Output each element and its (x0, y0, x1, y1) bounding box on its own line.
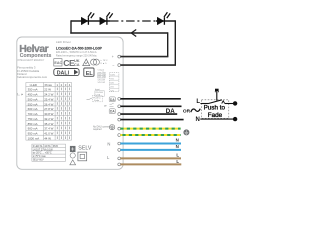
svg-text:t₀ 75°C: t₀ 75°C (101, 59, 108, 62)
switch neutral wire (120, 119, 183, 121)
svg-text:SELV: SELV (78, 146, 92, 152)
svg-text:600 mA: 600 mA (28, 107, 38, 111)
driver U1 outline (17, 37, 123, 169)
mini push-to-fade pictogram (87, 98, 93, 99)
svg-text:37.4 W: 37.4 W (44, 127, 53, 131)
connection dot bottom (233, 117, 237, 121)
svg-text:10%: 10% (110, 90, 114, 92)
svg-text:EAC: EAC (54, 61, 62, 65)
LED D3 (157, 12, 170, 24)
svg-text:32.2 W: 32.2 W (44, 117, 53, 121)
svg-text:or: or (104, 104, 107, 108)
DA short wire (120, 113, 177, 115)
dashed settings block (109, 73, 119, 92)
svg-text:54V 44W: 54V 44W (98, 77, 106, 79)
svg-text:DA: DA (110, 98, 115, 102)
push-to-fade dashed box (202, 100, 229, 119)
neutral wire N1 blue (120, 143, 181, 145)
AC squiggle (191, 109, 200, 113)
svg-text:required: required (93, 128, 102, 131)
DALI wire DA1 (120, 98, 180, 100)
svg-text:Fade: Fade (208, 112, 223, 119)
terminal N2 (118, 149, 121, 152)
svg-text:LED Driver: LED Driver (56, 40, 71, 44)
earth wire E1 (120, 128, 180, 130)
svg-text:54V 10W: 54V 10W (98, 82, 106, 84)
svg-text:No DALI connection: No DALI connection (93, 125, 114, 128)
svg-text:500 mA: 500 mA (28, 97, 38, 101)
earth wire E2 (120, 134, 180, 136)
svg-text:Rated emergency range 220-240V: Rated emergency range 220-240Vac (56, 54, 98, 57)
svg-text:24.2 W: 24.2 W (44, 93, 53, 97)
svg-text:L: L (176, 153, 179, 158)
dash-dot wire segment (110, 20, 156, 22)
LED D1 (81, 12, 94, 24)
svg-text:0.27A: 0.27A (95, 94, 100, 97)
svg-text:75%: 75% (110, 79, 114, 81)
DALI logo (54, 69, 79, 76)
live wire L1 brown (120, 157, 181, 159)
push wire N (200, 118, 233, 120)
LED- wire (120, 64, 176, 66)
earth symbol right (183, 129, 189, 135)
svg-text:Push to: Push to (204, 104, 226, 111)
svg-text:N: N (176, 138, 179, 143)
svg-text:OR: OR (183, 109, 191, 115)
tiny glyphs left of OR (110, 103, 114, 106)
svg-text:44 W: 44 W (44, 137, 51, 141)
svg-text:350 mA: 350 mA (28, 88, 38, 92)
DA terminal label 2 (109, 109, 115, 114)
svg-text:Push to: Push to (93, 96, 101, 99)
svg-text:SELV 60V: SELV 60V (33, 158, 44, 161)
svg-text:+: + (112, 55, 114, 59)
LED D2 (100, 12, 113, 24)
svg-text:L: L (196, 99, 200, 105)
svg-text:25.4 W: 25.4 W (44, 97, 53, 101)
terminal DA2 (118, 105, 121, 108)
svg-text:N: N (176, 144, 179, 149)
current direction arrow (131, 30, 136, 37)
svg-text:L: L (176, 159, 179, 164)
svg-text:700 mA: 700 mA (28, 112, 38, 116)
DALI wire DA2 (120, 105, 181, 107)
current table (26, 83, 72, 141)
svg-text:DA: DA (110, 110, 115, 114)
svg-text:950 mA: 950 mA (28, 132, 38, 136)
svg-text:50%: 50% (110, 83, 114, 85)
terminal L-switch (118, 113, 121, 116)
small symbol column (70, 146, 76, 165)
terminal N-switch (118, 118, 121, 121)
svg-text:INTELLIGENT ENERGY: INTELLIGENT ENERGY (17, 59, 45, 62)
connection dot top (233, 101, 237, 105)
wire outer vertical (174, 20, 176, 65)
LED+ wire (120, 56, 168, 58)
svg-text:850 mA: 850 mA (28, 122, 38, 126)
svg-text:DALI: DALI (57, 70, 70, 76)
svg-text:IP20: IP20 (53, 145, 59, 148)
svg-text:550 mA: 550 mA (28, 102, 38, 106)
switch S1 (200, 89, 233, 104)
EAC mark (54, 59, 62, 66)
svg-text:1000 mA: 1000 mA (28, 137, 40, 141)
svg-text:30.8 W: 30.8 W (44, 112, 53, 116)
RCM mark (83, 59, 90, 66)
svg-text:LCxxxEC-DA-500-1000-LG0P: LCxxxEC-DA-500-1000-LG0P (56, 47, 103, 51)
wire left vertical (70, 20, 72, 33)
terminal L1 (118, 157, 121, 160)
svg-text:27.8 W: 27.8 W (44, 107, 53, 111)
neutral wire N2 blue (120, 149, 181, 151)
svg-text:Pmax: Pmax (45, 83, 53, 87)
svg-text:Fade: Fade (94, 100, 100, 102)
LED string top wire (71, 20, 175, 22)
svg-text:26.4 W: 26.4 W (44, 102, 53, 106)
svg-text:N: N (107, 141, 110, 146)
earth label inside (109, 125, 114, 130)
terminal earth2 (118, 134, 121, 137)
EL mark (84, 68, 94, 76)
svg-text:DA: DA (166, 108, 175, 115)
svg-text:35.2 W: 35.2 W (44, 122, 53, 126)
svg-text:450 mA: 450 mA (28, 93, 38, 97)
terminal DA1 (118, 97, 121, 100)
svg-text:I-LED: I-LED (30, 83, 37, 87)
terminal N1 (118, 142, 121, 145)
svg-text:N: N (196, 117, 200, 123)
svg-text:helvarcomponents.com: helvarcomponents.com (17, 75, 47, 79)
svg-text:100%: 100% (110, 75, 115, 77)
svg-text:41.0 W: 41.0 W (44, 132, 53, 136)
wire inner vertical (167, 32, 169, 56)
svg-text:25%: 25% (110, 87, 114, 89)
terminal earth1 (118, 127, 121, 130)
svg-text:22 W: 22 W (44, 88, 51, 92)
bottom spec table (32, 144, 66, 161)
svg-text:F ▲ 5: F ▲ 5 (101, 62, 108, 65)
terminal L2 (118, 163, 121, 166)
svg-text:750 mA: 750 mA (28, 117, 38, 121)
terminal LED- (118, 64, 121, 67)
svg-text:CA: CA (74, 62, 80, 67)
terminal circles on right edge (118, 55, 121, 166)
extra cert mark (91, 59, 97, 65)
class II symbol (78, 152, 87, 161)
LED return wire (70, 32, 167, 34)
svg-text:Components: Components (20, 53, 52, 59)
svg-text:EL: EL (86, 71, 94, 77)
svg-text:900 mA: 900 mA (28, 127, 38, 131)
DA terminal label 1 (109, 97, 115, 102)
terminal LED+ (118, 55, 121, 58)
live wire L2 brown (120, 163, 181, 165)
